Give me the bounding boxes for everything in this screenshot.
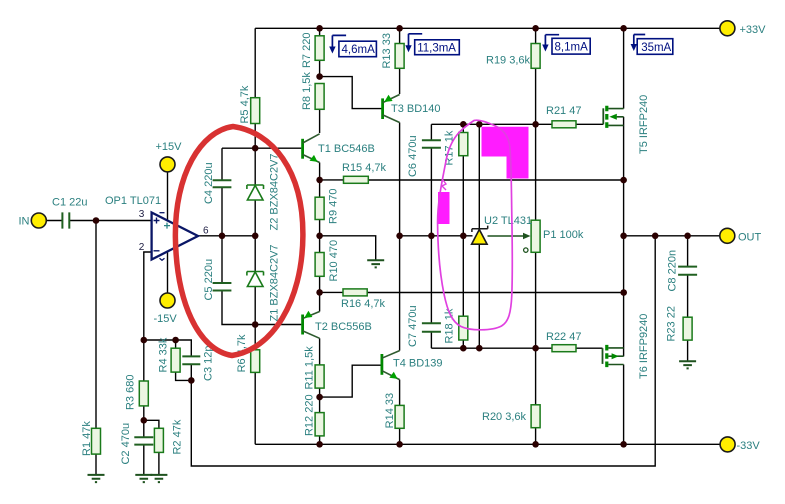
resistor R16 4,7k	[341, 289, 386, 310]
wire: R18 bottom lead	[462, 340, 464, 348]
wire: op-amp pin2 to fb node	[144, 252, 152, 340]
capacitor C2 470u	[120, 423, 153, 465]
terminal -33V	[720, 437, 760, 452]
capacitor C7 470u	[407, 305, 441, 347]
svg-text:8,1mA: 8,1mA	[555, 42, 589, 54]
op-amp OP1 TL071	[105, 195, 209, 260]
wire: R5 column top rail to R5	[254, 28, 256, 97]
wire: T2 base row y324	[255, 324, 301, 326]
measurement probe 35mA	[631, 35, 673, 55]
wire: R5 bottom to node B1	[254, 124, 256, 149]
resistor R20 3,6k	[482, 405, 540, 428]
svg-text:C1 22u: C1 22u	[52, 197, 87, 209]
wire: R14 bottom	[399, 428, 401, 444]
capacitor C3 12p	[182, 346, 214, 381]
wire: P1 leads	[535, 124, 537, 348]
wire: C2 leads	[143, 420, 145, 475]
svg-text:R1 47k: R1 47k	[81, 421, 93, 456]
svg-text:P1 100k: P1 100k	[543, 229, 584, 241]
resistor R4 33k	[158, 337, 181, 372]
wire: C6 top corner	[430, 124, 432, 140]
zener Z2 BZX84C2V7	[247, 153, 280, 230]
wire: T3 base jog	[320, 77, 383, 109]
wire: C5 top lead	[221, 236, 223, 283]
resistor R10 470	[315, 240, 340, 282]
transistor T3 BD140	[383, 95, 441, 123]
wire: T4 emitter to R14	[399, 380, 401, 406]
wire: R23 bottom to ground	[687, 340, 689, 361]
wire: -33V bottom rail	[255, 443, 720, 445]
resistor R21 47	[546, 105, 581, 128]
ground (R9/R10 mid)	[367, 260, 384, 267]
highlight: magenta rectangle small	[438, 192, 450, 224]
wire: T3 collector to T4 collector column	[399, 123, 401, 351]
wire: R19 leads	[535, 28, 537, 124]
ground (R1)	[88, 475, 105, 482]
svg-text:R16 4,7k: R16 4,7k	[341, 298, 386, 310]
wire: bias bottom rail y348	[431, 347, 552, 349]
node: R11/R12/T4 base junction	[316, 394, 323, 401]
wire: R12 bottom	[319, 436, 321, 444]
transistor T2 BC556B	[303, 311, 372, 339]
node: R7/R8 junction	[316, 73, 323, 80]
wire: T4 base jog	[320, 365, 382, 397]
capacitor C1 22u	[52, 197, 87, 229]
node: TL431 ref row junctions	[396, 233, 466, 240]
ground (R2)	[150, 475, 167, 482]
wire: R17 top lead	[462, 124, 464, 132]
terminal IN	[19, 213, 47, 228]
svg-text:C7 470u: C7 470u	[407, 305, 419, 347]
wire: TL431 anode column	[478, 244, 480, 348]
wire: R20 leads	[535, 348, 537, 444]
resistor R1 47k	[81, 421, 101, 456]
wire: C4 bottom lead	[221, 187, 223, 236]
wire: R1 bottom to ground	[95, 454, 97, 475]
capacitor C4 220u	[203, 162, 231, 204]
svg-text:OUT: OUT	[738, 232, 762, 244]
svg-text:R23 22: R23 22	[666, 306, 678, 341]
resistor R2 47k	[154, 419, 183, 454]
zener Z1 BZX84C2V7	[247, 244, 280, 321]
wire: IN to C1	[46, 220, 62, 222]
capacitor C6 470u	[407, 135, 441, 177]
svg-text:4,6mA: 4,6mA	[342, 44, 376, 56]
resistor R13 33	[381, 33, 404, 68]
measurement probe 8,1mA	[542, 35, 590, 54]
transistor T1 BC546B	[303, 134, 375, 163]
measurement probe 11,3mA	[405, 34, 459, 55]
resistor R22 47	[546, 331, 581, 352]
svg-text:+15V: +15V	[156, 141, 183, 153]
wire: T2 collector to R11	[319, 338, 321, 365]
wire: R4 leads	[176, 340, 192, 380]
shunt regulator U2 TL431	[472, 215, 533, 244]
wire: R10 leads	[319, 236, 321, 293]
resistor R5 4,7k	[239, 85, 260, 123]
svg-text:R8 1,5k: R8 1,5k	[301, 72, 313, 110]
resistor R11 1,5k	[304, 346, 324, 390]
svg-text:R14 33: R14 33	[384, 393, 396, 428]
wire: C3 top lead and fb row y340	[144, 340, 192, 356]
svg-text:35mA: 35mA	[641, 42, 671, 54]
transistor T4 BD139	[382, 351, 443, 380]
wire: ground stub mid	[320, 236, 376, 260]
svg-text:R20 3,6k: R20 3,6k	[482, 411, 527, 423]
svg-text:6: 6	[203, 226, 209, 237]
wire: OUT rail	[624, 235, 720, 237]
svg-text:C4 220u: C4 220u	[203, 162, 215, 204]
wire: R6 leads	[254, 325, 256, 445]
wire: C8 leads	[687, 236, 689, 317]
node: bias top rail junctions	[460, 121, 539, 128]
svg-text:T5 IRFP240: T5 IRFP240	[638, 95, 650, 154]
svg-text:R21 47: R21 47	[546, 105, 581, 117]
resistor R23 22	[666, 306, 692, 341]
terminal -15V	[154, 293, 178, 325]
wire: C3 bottom lead	[190, 364, 192, 380]
resistor R7 220	[301, 33, 324, 68]
wire: input node to R1	[95, 221, 97, 429]
wire: R3 leads	[143, 340, 145, 420]
resistor R3 680	[124, 375, 148, 410]
wire: TL431 ref row y236	[400, 235, 473, 237]
highlight: red ellipse	[175, 127, 303, 356]
wire: T6 source to -33V rail	[623, 365, 625, 445]
node: input junction	[93, 217, 100, 224]
wire: R9 leads	[319, 180, 321, 236]
wire: R22 right to T6 gate	[576, 347, 603, 349]
svg-text:-15V: -15V	[154, 313, 178, 325]
svg-text:T6 IRFP9240: T6 IRFP9240	[638, 314, 650, 379]
svg-text:R3 680: R3 680	[124, 375, 136, 410]
svg-text:R5 4,7k: R5 4,7k	[239, 85, 251, 123]
wire: T5 drain column	[623, 28, 625, 108]
wire: TL431 cathode column	[478, 124, 480, 229]
svg-text:R10 470: R10 470	[328, 240, 340, 282]
svg-text:Z1 BZX84C2V7: Z1 BZX84C2V7	[268, 244, 280, 321]
wire: C5 bottom lead to node B2	[222, 291, 255, 325]
svg-text:U2 TL431: U2 TL431	[484, 215, 532, 227]
terminal +15V	[156, 141, 183, 172]
wire: R2 top jog and bottom	[144, 420, 159, 475]
node: top rail junctions	[316, 25, 627, 32]
node: bias bottom rail junctions	[460, 345, 539, 352]
svg-text:IN: IN	[19, 216, 30, 228]
svg-text:R13 33: R13 33	[381, 33, 393, 68]
svg-text:R12 220: R12 220	[304, 394, 316, 436]
wire: T2 emitter lead	[319, 292, 321, 311]
wire: C4 top lead	[221, 148, 223, 180]
wire: R11 bottom R12 top	[319, 388, 321, 413]
svg-text:R4 33k: R4 33k	[158, 337, 170, 372]
svg-text:R7 220: R7 220	[301, 33, 313, 68]
terminal +33V	[720, 21, 766, 36]
svg-text:C8 220n: C8 220n	[667, 250, 679, 292]
node: output column junctions	[620, 177, 691, 296]
node: R9/R10 ground junction	[316, 233, 323, 240]
wire: feedback loop OUT to bottom	[191, 236, 655, 466]
node: feedback network junctions	[141, 337, 195, 424]
wire: R17 bottom to R18 top column	[462, 156, 464, 317]
svg-text:C5 220u: C5 220u	[203, 259, 215, 301]
ground (C2)	[135, 475, 152, 482]
wire: Z1 bottom lead	[254, 287, 256, 325]
resistor R8 1,5k	[301, 72, 324, 110]
wire: C1 to op-amp pin3	[69, 220, 151, 222]
capacitor C8 220n	[667, 250, 697, 292]
svg-text:T3 BD140: T3 BD140	[391, 103, 441, 115]
node: bottom rail junctions	[316, 441, 627, 448]
svg-text:T4 BD139: T4 BD139	[393, 358, 443, 370]
highlight: magenta freehand loop	[438, 120, 513, 330]
resistor R15 4,7k	[342, 162, 387, 183]
wire: R13 leads	[399, 28, 401, 94]
wire: R15 row y180 to output column	[320, 179, 624, 181]
svg-text:R11 1,5k: R11 1,5k	[304, 346, 316, 390]
capacitor C5 220u	[203, 259, 231, 301]
wire: T6 drain column	[623, 236, 625, 357]
svg-text:C2 470u: C2 470u	[120, 423, 132, 465]
svg-text:R22 47: R22 47	[546, 331, 581, 343]
svg-text:R9 470: R9 470	[327, 189, 339, 224]
wire: T5 source to OUT rail	[623, 117, 625, 236]
svg-text:R19 3,6k: R19 3,6k	[486, 55, 531, 67]
wire: T1 emitter to R15 node	[319, 163, 321, 180]
measurement probe 4,6mA	[329, 35, 376, 56]
terminal OUT	[720, 228, 762, 243]
mosfet T5 IRFP240	[603, 95, 650, 154]
svg-text:R2 47k: R2 47k	[171, 419, 183, 454]
wire: T1 base row y148	[222, 147, 301, 149]
wire: C7 bottom corner	[430, 332, 432, 348]
svg-text:+33V: +33V	[740, 24, 767, 36]
wire: Z1 top lead	[254, 236, 256, 272]
wire: Z2 top lead	[254, 148, 256, 185]
wire: R7 leads	[319, 28, 321, 76]
resistor R18 1k	[444, 308, 468, 343]
ground (R23)	[679, 361, 696, 368]
resistor R17 1k	[444, 130, 468, 165]
wire: +15V to op-amp	[167, 172, 169, 220]
wire: op-amp to -15V	[167, 252, 169, 294]
svg-text:C6 470u: C6 470u	[407, 135, 419, 177]
svg-text:C3 12p: C3 12p	[203, 346, 215, 381]
wire: R21 right to T5 gate	[576, 123, 603, 125]
resistor R12 220	[304, 394, 324, 436]
wire: op-amp output row	[198, 235, 255, 237]
potentiometer P1 100k	[488, 220, 584, 252]
node: zener column junctions	[219, 145, 259, 328]
highlight: magenta squiggle near small rect	[442, 180, 446, 190]
node: T1 emitter/R15/R9 junction	[316, 177, 323, 184]
svg-text:T2 BC556B: T2 BC556B	[315, 321, 372, 333]
wire: R8 bottom to T1 collector	[319, 109, 321, 133]
node: T2 emitter/R16/R10 junction	[316, 289, 323, 296]
mosfet T6 IRFP9240	[603, 314, 651, 379]
wire: +33V top rail	[255, 27, 720, 29]
wire: C6 bottom to C7 top column	[430, 148, 432, 324]
wire: Z2 bottom lead	[254, 200, 256, 236]
svg-text:-33V: -33V	[737, 440, 761, 452]
resistor R19 3,6k	[486, 44, 540, 69]
svg-text:2: 2	[139, 242, 145, 253]
resistor R14 33	[384, 393, 404, 428]
wire: R16 row y292 to output column	[320, 291, 624, 293]
svg-text:3: 3	[139, 209, 145, 220]
resistor R9 470	[315, 189, 339, 224]
svg-text:11,3mA: 11,3mA	[417, 43, 456, 55]
svg-text:OP1 TL071: OP1 TL071	[105, 195, 161, 207]
svg-text:T1 BC546B: T1 BC546B	[318, 143, 375, 155]
resistor R6 4,7k	[236, 334, 260, 372]
wire: bias top rail y124	[431, 123, 552, 125]
highlight: magenta rectangle large	[482, 127, 529, 179]
svg-text:R15 4,7k: R15 4,7k	[342, 162, 387, 174]
svg-text:Z2 BZX84C2V7: Z2 BZX84C2V7	[268, 153, 280, 230]
